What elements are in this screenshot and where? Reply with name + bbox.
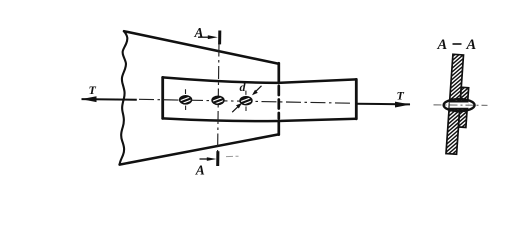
force arrow T right [357,89,411,108]
rivet hole 3 [239,91,252,111]
rivet ellipse [444,99,475,111]
section arrow top [198,36,211,38]
force arrow T left [81,83,137,102]
main plate section [434,27,475,187]
svg-text:A: A [437,37,448,53]
gusset plate right edge (solid upper) [277,63,280,83]
svg-text:T: T [89,83,97,97]
section tick bottom [216,151,219,166]
section center line [434,104,488,106]
svg-text:A: A [466,37,477,53]
rivet hole 1 [179,89,192,110]
gusset plate top edge [124,31,279,64]
main view group (gusset + strap outlines) [120,31,357,164]
gusset plate right edge hidden dashes [277,86,280,119]
svg-text:d: d [240,80,247,94]
section plates (tilted) [434,27,483,187]
rivet shank band [450,102,469,109]
scan noise dash near bottom tick [226,155,239,157]
svg-text:T: T [397,89,405,103]
gusset plate bottom edge [120,134,279,164]
gusset plate right edge (solid lower) [277,121,280,135]
rivet hole 2 [211,96,224,106]
section line A-A vertical [218,44,219,152]
section arrow bottom [200,158,211,160]
dimension d of hole 3 [232,80,261,112]
strap plate outline [163,77,357,83]
section tick top [218,31,221,45]
gusset plate left break (wavy line) [120,31,128,164]
node center line horizontal [139,99,352,103]
lap plate section [449,64,481,156]
label A-A title [437,37,477,53]
svg-text:A: A [195,162,205,177]
svg-text:A: A [194,25,204,40]
